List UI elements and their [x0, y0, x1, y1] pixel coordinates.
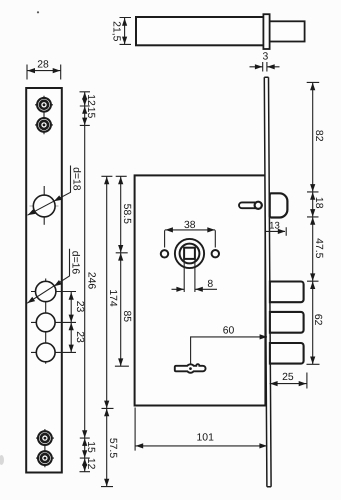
svg-text:246: 246 [85, 272, 96, 290]
hole d=16 [31, 279, 76, 364]
screw hole 1 [35, 96, 53, 135]
svg-text:12: 12 [85, 94, 96, 106]
svg-text:28: 28 [37, 59, 49, 70]
scan speck [37, 11, 39, 13]
svg-text:8: 8 [207, 279, 213, 290]
keyhole [175, 364, 206, 373]
dimension 3 [250, 51, 280, 71]
deadbolt block 3 [270, 343, 304, 364]
faceplate front view plate [26, 88, 62, 473]
dimension 28 [27, 59, 61, 79]
dimension chain 12 15 246 15 12 [80, 92, 97, 472]
bolt body side view [136, 14, 305, 49]
svg-text:62: 62 [312, 314, 323, 326]
svg-text:12: 12 [85, 458, 96, 470]
hub side circle left [161, 250, 168, 257]
scan smudge [0, 455, 4, 465]
dimension 8 [172, 260, 218, 293]
svg-text:15: 15 [85, 107, 96, 119]
svg-text:174: 174 [107, 289, 118, 307]
svg-text:101: 101 [197, 433, 215, 444]
dimension 174 and 57.5 [101, 176, 118, 486]
latch bolt [270, 193, 288, 217]
svg-text:21,5: 21,5 [111, 21, 122, 41]
dimension 60 [191, 326, 268, 365]
spindle hub [175, 239, 204, 268]
lock body [135, 175, 266, 405]
svg-text:85: 85 [121, 311, 132, 323]
svg-text:82: 82 [313, 130, 324, 142]
hole d=18 [30, 186, 59, 225]
dimension 101 [135, 408, 267, 451]
hole row circle 3 [31, 343, 76, 362]
deadbolt block 1 [270, 282, 304, 303]
leader d=18 [26, 166, 81, 218]
svg-text:13: 13 [269, 221, 280, 232]
svg-text:d=18: d=18 [70, 167, 81, 191]
faceplate side strip [264, 77, 271, 487]
oval slot [239, 202, 262, 209]
svg-text:d=16: d=16 [70, 251, 81, 275]
svg-text:38: 38 [184, 220, 196, 231]
svg-text:23: 23 [74, 301, 85, 313]
leader d=16 [26, 249, 81, 305]
dimension 13 [266, 221, 286, 236]
svg-text:47.5: 47.5 [313, 238, 324, 258]
screw hole 4 [36, 451, 54, 465]
svg-text:25: 25 [282, 372, 294, 383]
svg-text:18: 18 [313, 197, 324, 209]
dimension 21,5 [111, 18, 131, 45]
screw hole 2 [35, 118, 53, 132]
hub side circle right [212, 250, 219, 257]
hole row circle 2 [31, 313, 76, 332]
screw hole 3 [36, 429, 54, 467]
svg-text:60: 60 [223, 326, 235, 337]
dimension chain 23 23 [69, 292, 85, 352]
deadbolt block 2 [270, 312, 304, 333]
svg-text:23: 23 [74, 331, 85, 343]
svg-text:57.5: 57.5 [107, 438, 118, 458]
dimension chain 82 18 47.5 62 [307, 82, 324, 364]
dimension 25 [270, 372, 307, 389]
dimension 58.5 and 85 [115, 176, 132, 366]
svg-text:15: 15 [85, 441, 96, 453]
dimension 38 [165, 220, 216, 247]
svg-text:58.5: 58.5 [121, 204, 132, 224]
svg-text:3: 3 [263, 51, 269, 62]
